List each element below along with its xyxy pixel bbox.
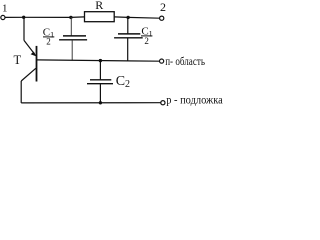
wire collector down to substrate rail xyxy=(20,81,22,103)
capacitor C1/2 left bottom plate xyxy=(59,39,87,41)
transistor T base bar xyxy=(36,46,38,82)
p-substrate terminal xyxy=(161,101,165,105)
wire node C to terminal 2 xyxy=(128,16,160,19)
capacitor C2 bottom plate xyxy=(87,83,113,85)
capacitor C1/2 right bottom plate xyxy=(114,37,143,39)
capacitor C1/2 left: wire from node B down to top plate xyxy=(70,17,72,35)
terminal 2 xyxy=(160,16,164,20)
transistor T collector lead xyxy=(21,68,36,81)
capacitor C1/2 right: wire from node C down to top plate xyxy=(127,17,129,33)
capacitor C1/2 left: wire from bottom plate to n-region rail xyxy=(71,40,73,60)
svg-text:1: 1 xyxy=(2,2,8,14)
transistor T emitter lead xyxy=(24,40,35,54)
transistor T emitter arrowhead xyxy=(31,52,37,57)
wire terminal1 to node A xyxy=(5,16,23,18)
wire node A to node B xyxy=(23,16,71,18)
capacitor C1/2 left fraction bar xyxy=(43,36,54,38)
wire node B to resistor R xyxy=(71,16,85,19)
n-region rail (base wire) xyxy=(37,60,161,61)
capacitor C1/2 right fraction bar xyxy=(141,35,152,37)
svg-text:R: R xyxy=(95,0,103,12)
svg-text:T: T xyxy=(13,53,21,67)
wire resistor R to node C xyxy=(114,16,128,19)
wire node A down to transistor emitter xyxy=(23,17,25,40)
capacitor C1/2 right top plate xyxy=(118,33,140,35)
svg-text:2: 2 xyxy=(46,36,51,46)
capacitor C1/2 right: wire from bottom plate to n-region rail xyxy=(127,38,129,61)
node C junction dot xyxy=(126,16,129,19)
terminal 1 xyxy=(1,15,5,19)
svg-text:2: 2 xyxy=(144,36,149,46)
capacitor C2: wire from bottom plate to substrate rail xyxy=(99,84,101,103)
p-substrate rail xyxy=(21,102,161,104)
node B junction dot xyxy=(69,16,72,19)
capacitor C1/2 left top plate xyxy=(63,35,86,37)
node D junction dot on n-region rail xyxy=(99,59,102,62)
n-region terminal xyxy=(160,59,164,63)
capacitor C2: wire from node D down to top plate xyxy=(99,61,101,80)
node A junction dot xyxy=(22,16,25,19)
resistor R body xyxy=(85,12,115,22)
svg-text:2: 2 xyxy=(160,0,166,14)
node E junction dot on substrate rail xyxy=(99,101,102,104)
svg-text:р - подложка: р - подложка xyxy=(166,95,223,107)
capacitor C2 top plate xyxy=(90,79,111,81)
svg-text:п- область: п- область xyxy=(165,54,205,68)
